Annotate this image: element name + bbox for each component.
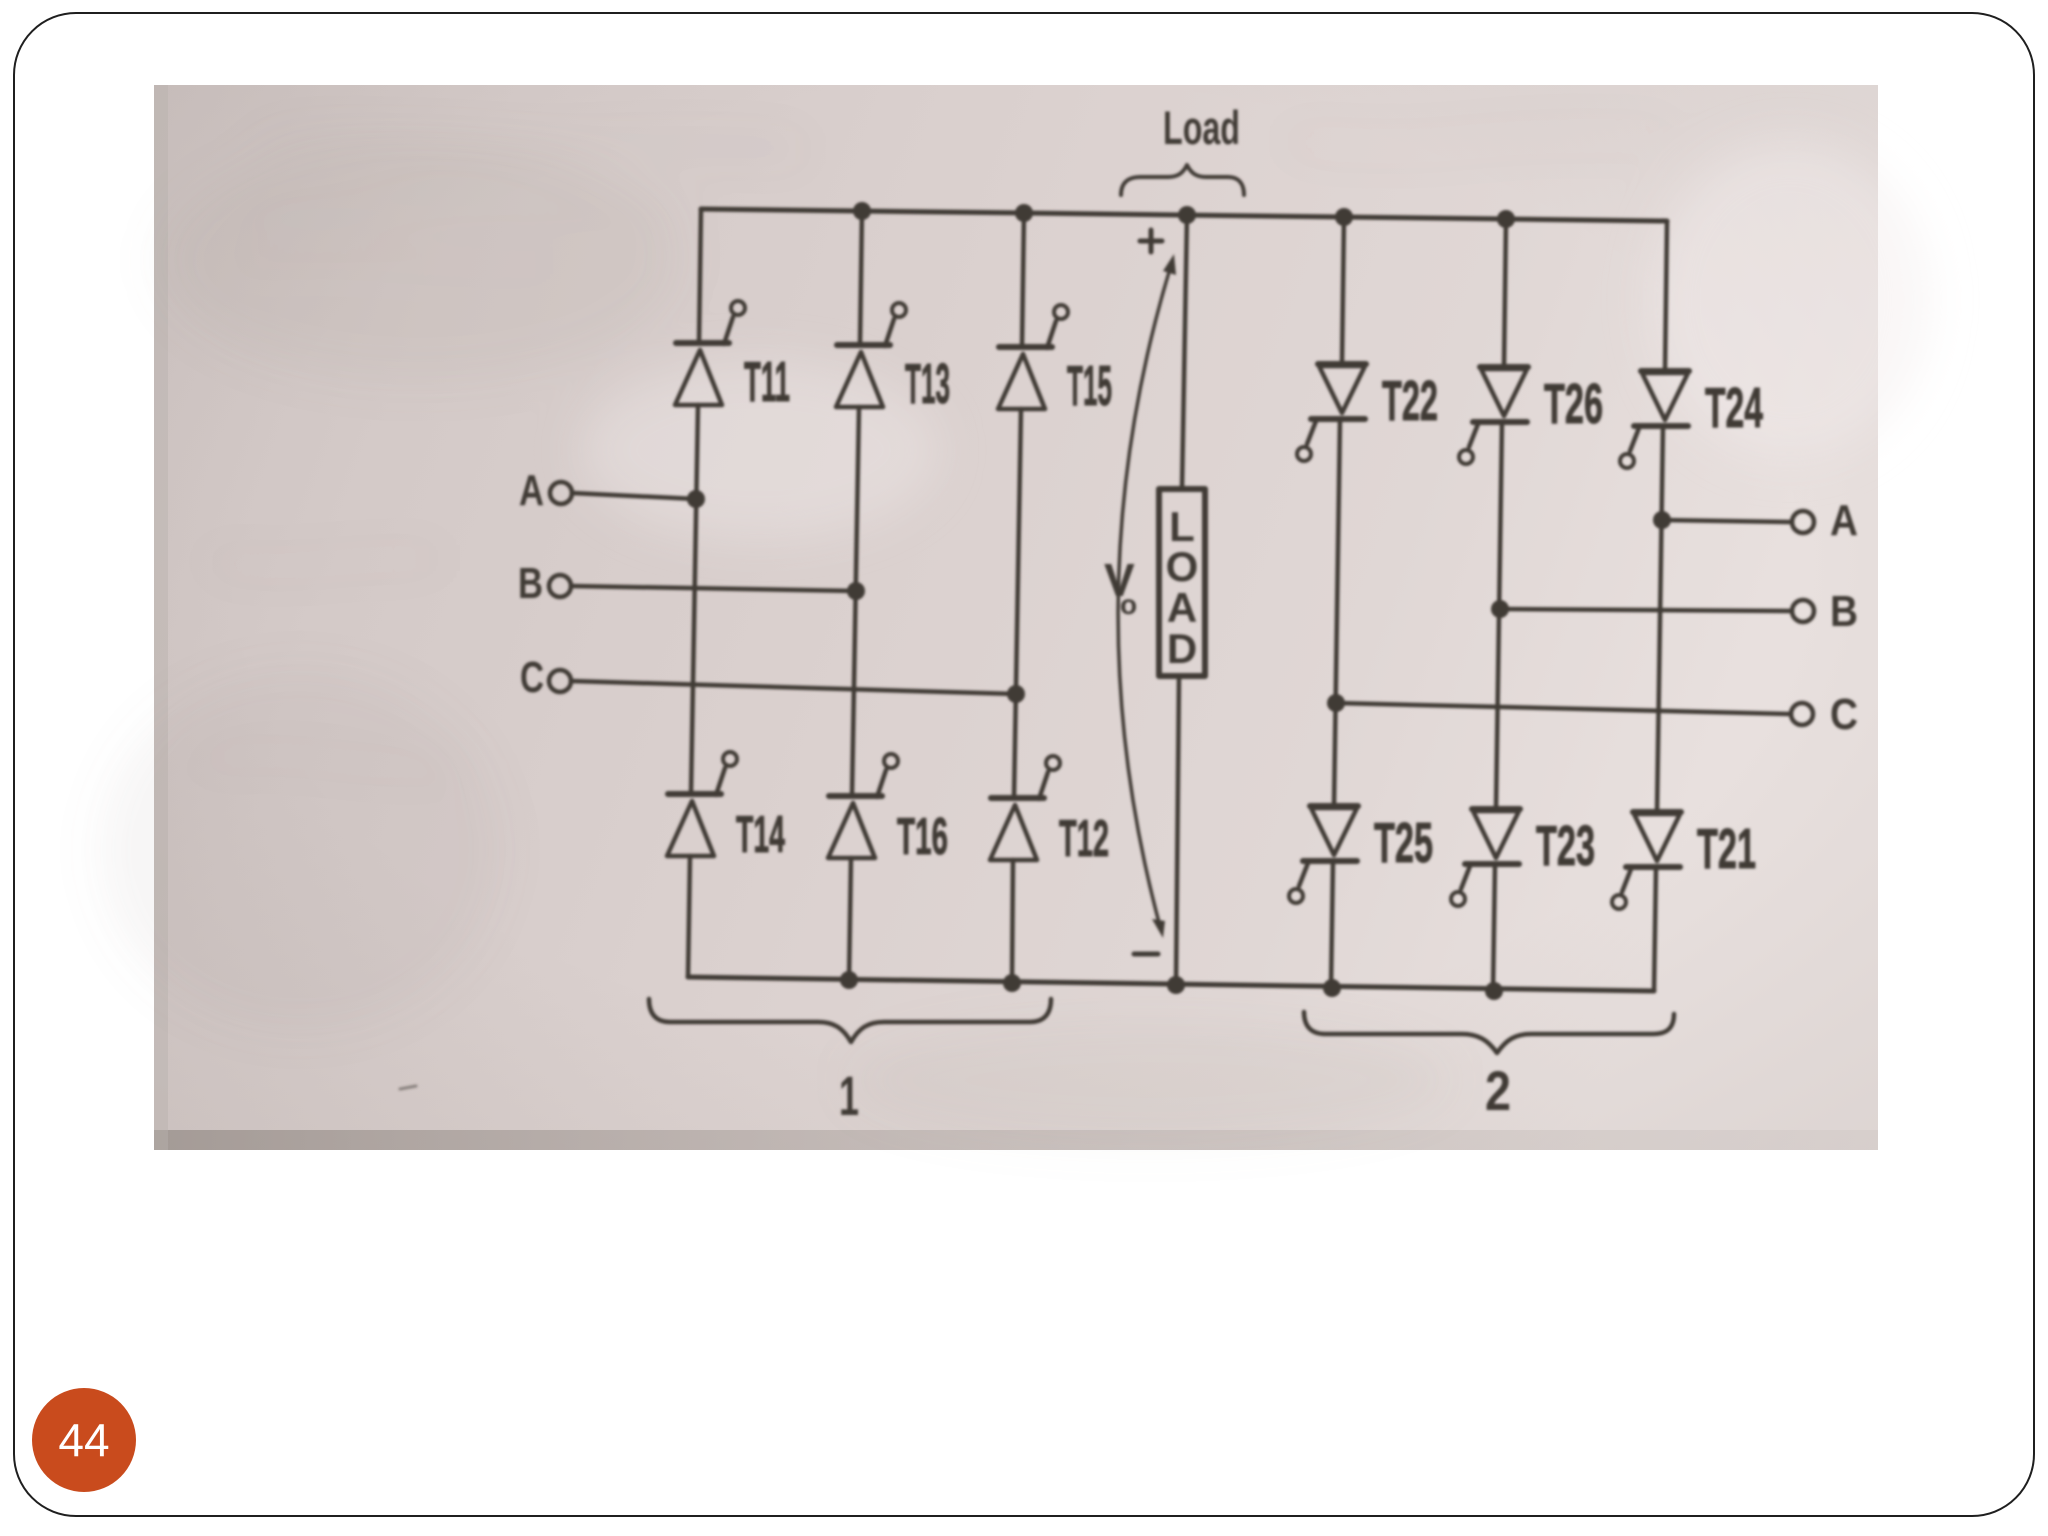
svg-text:2: 2 xyxy=(1485,1059,1511,1122)
svg-text:T21: T21 xyxy=(1697,817,1756,881)
wire load branch upper xyxy=(1182,215,1187,489)
wire phase B right xyxy=(1500,609,1792,611)
wire bottom DC bus (-) xyxy=(688,977,1654,991)
thyristor T26 xyxy=(1459,367,1603,464)
svg-text:C: C xyxy=(1830,690,1858,739)
junction bottom bus / leg T23 xyxy=(1485,982,1503,1000)
svg-text:O: O xyxy=(1166,543,1199,590)
load box letters xyxy=(1166,503,1199,672)
junction node A left / leg1 xyxy=(687,490,705,508)
wire leg3 top segment xyxy=(1022,213,1024,347)
wire leg1 bottom segment xyxy=(688,856,690,977)
svg-text:A: A xyxy=(1830,496,1858,545)
thyristor T11 xyxy=(675,301,790,414)
wire load branch lower xyxy=(1176,676,1179,985)
svg-text:T11: T11 xyxy=(744,350,790,414)
junction top bus / leg T15 xyxy=(1015,204,1033,222)
svg-text:A: A xyxy=(1167,584,1197,631)
terminal A left xyxy=(550,482,572,504)
svg-text:T14: T14 xyxy=(736,806,785,864)
wire leg1 top segment xyxy=(699,209,701,343)
brace group 2 xyxy=(1304,1012,1674,1053)
wire leg2 middle segment (node B left) xyxy=(852,407,859,796)
thyristor T16 xyxy=(828,754,948,866)
thyristor T25 xyxy=(1289,806,1433,903)
wire top DC bus (+) xyxy=(701,209,1667,221)
wire leg1 middle segment (node A left) xyxy=(691,405,698,794)
junction bottom bus / leg T12 xyxy=(1003,974,1021,992)
wire phase B left xyxy=(571,586,856,591)
svg-text:T15: T15 xyxy=(1067,354,1112,418)
svg-text:D: D xyxy=(1167,625,1197,672)
wire phase C left xyxy=(571,681,1016,694)
wire leg2 bottom segment xyxy=(849,858,851,980)
svg-text:T16: T16 xyxy=(897,808,948,866)
svg-text:T25: T25 xyxy=(1374,811,1433,875)
junction node C left / leg3 xyxy=(1007,685,1025,703)
brace group 1 xyxy=(649,999,1051,1042)
terminal B right xyxy=(1792,600,1814,622)
wire leg3 bottom segment xyxy=(1012,860,1013,983)
junction node C right / leg4 xyxy=(1327,694,1345,712)
Vo measurement arrow xyxy=(1118,262,1172,930)
junction bottom bus / leg T25 xyxy=(1323,979,1341,997)
svg-text:T26: T26 xyxy=(1544,372,1603,436)
scan texture: soft blotches and faint bleed-through xyxy=(100,136,1930,1140)
wire leg4 bottom segment xyxy=(1331,861,1333,988)
wire leg6 top segment xyxy=(1665,221,1667,371)
svg-text:T24: T24 xyxy=(1705,376,1763,440)
thyristor T14 xyxy=(667,752,785,864)
minus sign xyxy=(1134,952,1158,957)
wire phase A left xyxy=(572,493,696,499)
thyristor T21 xyxy=(1612,812,1756,909)
svg-text:T22: T22 xyxy=(1382,369,1438,433)
terminal C right xyxy=(1791,703,1813,725)
junction top bus / leg T22 xyxy=(1335,208,1353,226)
wire leg6 middle segment (node A right) xyxy=(1657,426,1663,812)
terminal B left xyxy=(549,575,571,597)
svg-text:o: o xyxy=(1120,589,1137,620)
svg-text:T23: T23 xyxy=(1536,814,1595,878)
stray scan mark xyxy=(400,1086,416,1089)
page number badge 44 xyxy=(32,1388,136,1492)
terminal C left xyxy=(549,670,571,692)
svg-text:B: B xyxy=(518,559,543,608)
svg-text:1: 1 xyxy=(839,1064,859,1127)
wire leg4 top segment xyxy=(1342,217,1344,364)
svg-text:Load: Load xyxy=(1163,101,1240,154)
load box xyxy=(1159,489,1205,676)
svg-text:A: A xyxy=(519,466,544,515)
svg-text:C: C xyxy=(520,653,544,702)
thyristor T12 xyxy=(990,756,1109,868)
junction top bus / leg T13 xyxy=(853,202,871,220)
junction node B left / leg2 xyxy=(847,582,865,600)
junction top bus / leg T26 xyxy=(1497,210,1515,228)
wire phase C right xyxy=(1336,703,1791,714)
brace over load xyxy=(1121,165,1244,195)
scanned figure paper xyxy=(154,85,1878,1150)
thyristor T13 xyxy=(836,303,950,416)
plus sign xyxy=(1140,230,1162,252)
svg-text:T13: T13 xyxy=(905,352,950,416)
thyristor T24 xyxy=(1620,371,1763,468)
wire leg3 middle segment (node C left) xyxy=(1014,409,1021,798)
wire leg4 middle segment (node C right) xyxy=(1334,419,1340,806)
junction bottom bus / leg T16 xyxy=(840,971,858,989)
svg-text:B: B xyxy=(1830,587,1858,636)
junction bottom bus / load xyxy=(1167,976,1185,994)
wire leg5 top segment xyxy=(1504,219,1506,367)
thyristor T22 xyxy=(1297,364,1438,461)
wire leg6 bottom segment xyxy=(1654,867,1656,991)
junction node B right / leg5 xyxy=(1491,600,1509,618)
terminal A right xyxy=(1792,511,1814,533)
svg-text:T12: T12 xyxy=(1059,810,1109,868)
thyristor T23 xyxy=(1451,809,1595,906)
label Vo xyxy=(1104,554,1137,620)
wire leg5 middle segment (node B right) xyxy=(1496,422,1502,809)
wire leg5 bottom segment xyxy=(1493,864,1495,991)
wire phase A right xyxy=(1662,520,1792,522)
wire leg2 top segment xyxy=(860,211,862,345)
thyristor T15 xyxy=(998,305,1112,418)
junction node A right / leg6 xyxy=(1653,511,1671,529)
junction top bus / load xyxy=(1178,206,1196,224)
svg-text:44: 44 xyxy=(58,1414,109,1466)
